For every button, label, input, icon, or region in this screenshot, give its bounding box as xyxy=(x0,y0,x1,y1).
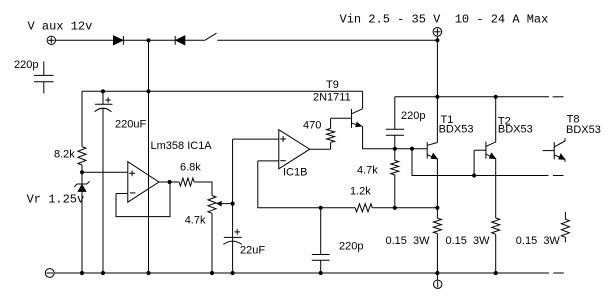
wire T2 collector xyxy=(486,97,496,147)
zener diode Vr xyxy=(74,172,89,273)
junction rail ground xyxy=(146,271,150,275)
resistor 0.15 T1 xyxy=(433,208,441,273)
svg-text:22uF: 22uF xyxy=(240,244,265,256)
wire aux to D1 xyxy=(56,39,114,41)
capacitor 220p feedback xyxy=(312,208,330,273)
resistor 0.15 T8 broken stubs xyxy=(561,212,569,242)
junction zener ground xyxy=(80,271,84,275)
wire D2 to switch xyxy=(185,39,206,41)
svg-text:470: 470 xyxy=(303,120,321,132)
terminal V aux plus xyxy=(47,36,55,44)
svg-text:BDX53: BDX53 xyxy=(566,124,601,136)
wire T2 emitter xyxy=(495,159,497,218)
junction collector rail T2 xyxy=(494,95,498,99)
resistor 470 xyxy=(327,118,335,149)
potentiometer 4.7k xyxy=(208,196,233,274)
svg-text:4.7k: 4.7k xyxy=(357,164,378,176)
op-amp IC1A xyxy=(128,162,159,203)
svg-text:220p: 220p xyxy=(339,241,363,253)
junction base tee xyxy=(410,147,414,151)
junction sense node xyxy=(393,206,397,210)
svg-text:IC1B: IC1B xyxy=(283,167,307,179)
wire IC1B plus input xyxy=(233,138,279,140)
wire D1 to top node xyxy=(123,39,175,41)
svg-text:BDX53: BDX53 xyxy=(439,123,474,135)
wire IC1B output xyxy=(310,148,331,150)
transistor T9 xyxy=(352,109,363,128)
junction 220uF bottom xyxy=(101,271,105,275)
junction rail aux xyxy=(146,89,150,93)
wire IC1A minus input xyxy=(116,193,128,195)
terminal minus xyxy=(45,269,54,278)
junction base node xyxy=(393,147,397,151)
junction 220p ground xyxy=(319,271,323,275)
junction top node xyxy=(146,38,150,42)
wire base rail dash xyxy=(553,175,564,177)
svg-text:220uF: 220uF xyxy=(115,119,146,131)
svg-text:Vin 2.5 - 35 V 10 - 24 A Max: Vin 2.5 - 35 V 10 - 24 A Max xyxy=(340,12,549,26)
resistor 0.15 T2 xyxy=(492,218,500,273)
transistor T8 xyxy=(543,138,565,162)
svg-text:8.2k: 8.2k xyxy=(54,149,75,161)
junction wiper node xyxy=(231,202,235,206)
wire Vin drop to T1 collector xyxy=(436,40,438,142)
wire IC1B feedback xyxy=(258,161,321,208)
wire fb node to 1.2k xyxy=(321,207,356,209)
svg-text:BDX53: BDX53 xyxy=(498,124,533,136)
diode D1 xyxy=(114,36,124,45)
wire T9 collector xyxy=(362,91,364,109)
svg-text:2N1711: 2N1711 xyxy=(313,91,351,103)
wire T9 emitter xyxy=(363,126,395,148)
op-amp IC1B xyxy=(279,130,310,169)
wire collector rail dash xyxy=(553,96,564,98)
wire V+ vertical rail xyxy=(148,40,150,273)
junction feedback node xyxy=(319,206,323,210)
transistor T1 xyxy=(427,142,437,159)
wire collector rail xyxy=(395,96,549,98)
junction T1 resistor ground xyxy=(435,271,439,275)
junction T2 resistor ground xyxy=(494,271,498,275)
wire ref to op-amp plus input xyxy=(82,171,128,173)
junction pot bottom xyxy=(210,271,214,275)
wire base node to T1 xyxy=(395,148,427,150)
capacitor 22uF xyxy=(223,229,241,244)
svg-text:220p: 220p xyxy=(14,59,38,71)
resistor 1.2k xyxy=(355,204,372,212)
junction 220uF top xyxy=(101,89,105,93)
wire base drive rail xyxy=(412,149,548,176)
wire ground rail xyxy=(54,272,549,274)
svg-text:220p: 220p xyxy=(401,110,425,122)
svg-text:6.8k: 6.8k xyxy=(180,162,201,174)
wire IC1A output xyxy=(159,181,179,183)
svg-text:0.15 3W: 0.15 3W xyxy=(446,235,491,247)
resistor 8.2k xyxy=(78,91,86,172)
terminal Vin plus xyxy=(433,28,442,41)
junction collector rail Vin xyxy=(435,95,439,99)
svg-text:4.7k: 4.7k xyxy=(185,215,206,227)
svg-text:T9: T9 xyxy=(326,79,339,91)
wire sense to T1 emitter xyxy=(395,207,438,209)
diode D2 xyxy=(175,36,185,45)
wire IC1B minus input xyxy=(258,160,279,162)
wire wiper rail vertical xyxy=(232,139,234,273)
junction ref node xyxy=(80,170,84,174)
junction base rail T2 xyxy=(472,173,476,177)
junction T1 emitter sense xyxy=(435,206,439,210)
capacitor 220uF xyxy=(95,91,113,273)
resistor 4.7k feedback xyxy=(391,149,399,208)
switch lever xyxy=(205,33,216,40)
wire 1.2k to sense node xyxy=(372,207,395,209)
terminal output 1 xyxy=(434,273,442,288)
capacitor 220p aux xyxy=(34,62,54,94)
wire 470 to T9 base xyxy=(331,117,352,119)
transistor T2 xyxy=(474,142,496,176)
wire IC1A feedback xyxy=(116,182,170,217)
wire aux rail xyxy=(82,90,363,92)
junction IC1A output xyxy=(168,180,172,184)
wire 6.8k to pot xyxy=(194,182,212,196)
svg-text:1.2k: 1.2k xyxy=(350,186,371,198)
svg-text:Vr 1.25v: Vr 1.25v xyxy=(27,193,85,207)
wire T1 emitter xyxy=(436,159,438,208)
svg-text:0.15 3W: 0.15 3W xyxy=(516,235,561,247)
svg-text:V aux 12v: V aux 12v xyxy=(28,20,93,34)
capacitor 220p compensation xyxy=(386,97,404,149)
svg-text:Lm358 IC1A: Lm358 IC1A xyxy=(151,140,213,152)
resistor 6.8k xyxy=(179,178,194,186)
junction 22uF bottom xyxy=(231,271,235,275)
wire ground rail dash xyxy=(553,272,564,274)
wire switch to Vin node xyxy=(217,39,437,41)
svg-text:0.15 3W: 0.15 3W xyxy=(386,235,431,247)
junction Vin node xyxy=(435,38,439,42)
